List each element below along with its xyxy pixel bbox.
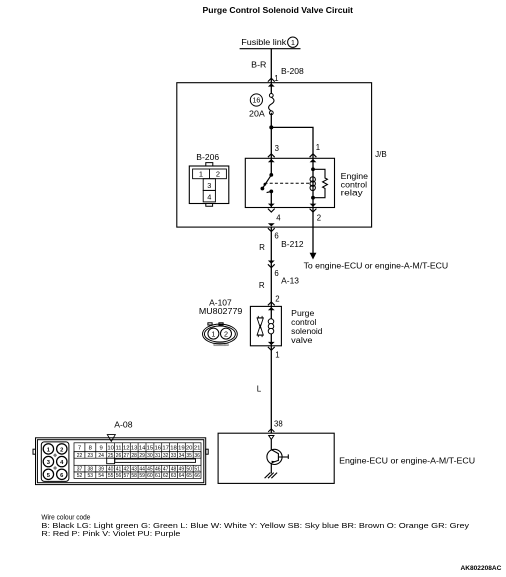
svg-text:65: 65 <box>186 473 192 479</box>
svg-text:2: 2 <box>60 447 63 453</box>
svg-text:15: 15 <box>147 445 154 451</box>
svg-text:18: 18 <box>170 445 177 451</box>
svg-text:20A: 20A <box>249 109 265 118</box>
svg-text:23: 23 <box>88 453 94 459</box>
svg-text:52: 52 <box>77 473 83 479</box>
svg-text:14: 14 <box>139 445 146 451</box>
A-08 pin row 22-36 <box>74 452 201 459</box>
relay switch arm <box>262 175 271 189</box>
svg-text:3: 3 <box>207 181 211 190</box>
A-08 pin row 37-51 <box>74 465 201 472</box>
svg-text:11: 11 <box>115 445 121 451</box>
relay pin 3 entry arrows <box>268 154 275 157</box>
svg-text:47: 47 <box>163 466 169 472</box>
relay pin 1 entry arrows <box>310 154 317 157</box>
svg-text:22: 22 <box>77 453 83 459</box>
svg-text:A-08: A-08 <box>114 421 133 430</box>
svg-text:2: 2 <box>216 170 220 179</box>
svg-text:Purge: Purge <box>291 309 315 318</box>
inline connector A-13 <box>268 261 275 264</box>
svg-text:valve: valve <box>291 336 313 345</box>
ECU pin 38 entry <box>268 429 274 432</box>
wire R from J/B to A-13 <box>270 227 272 306</box>
svg-text:6: 6 <box>274 231 278 240</box>
svg-text:66: 66 <box>194 473 200 479</box>
dashed actuation link <box>265 182 311 184</box>
wire branch to relay coil pin 1 <box>271 127 313 158</box>
svg-text:B-212: B-212 <box>281 240 304 249</box>
fuse element (wavy) <box>269 94 273 98</box>
svg-text:2: 2 <box>224 329 228 338</box>
A-08 index mark <box>107 435 115 442</box>
svg-text:55: 55 <box>108 473 114 479</box>
svg-text:R: Red P: Pink V: Violet PU: R: Red P: Pink V: Violet PU: Purple <box>41 530 180 538</box>
svg-text:20: 20 <box>186 445 193 451</box>
svg-text:AK802208AC: AK802208AC <box>461 565 502 572</box>
svg-text:1: 1 <box>199 170 203 179</box>
svg-text:58: 58 <box>131 473 137 479</box>
parallel resistor <box>313 169 327 197</box>
svg-text:49: 49 <box>179 466 185 472</box>
svg-text:40: 40 <box>108 466 114 472</box>
svg-text:4: 4 <box>276 214 281 223</box>
A-08 pin row 52-66 <box>74 472 201 479</box>
A-08 keyway <box>73 452 75 466</box>
svg-text:B-R: B-R <box>251 61 266 70</box>
svg-text:50: 50 <box>186 466 192 472</box>
engine-ECU box <box>218 433 334 483</box>
A-08 pin 2 <box>57 444 67 454</box>
svg-text:27: 27 <box>124 453 130 459</box>
wire to ground <box>270 463 272 474</box>
svg-text:relay: relay <box>341 188 363 197</box>
A-08 pin 5 <box>43 469 53 479</box>
wire relay switch to pin 4 <box>270 191 272 207</box>
svg-text:33: 33 <box>171 453 177 459</box>
svg-text:Fusible link: Fusible link <box>241 37 287 47</box>
svg-text:60: 60 <box>147 473 153 479</box>
svg-text:19: 19 <box>178 445 185 451</box>
svg-text:42: 42 <box>124 466 130 472</box>
wire relay pin 2 to engine-ECU <box>312 208 314 254</box>
svg-text:R: R <box>259 243 265 252</box>
svg-text:30: 30 <box>147 453 153 459</box>
A-08 pin 4 <box>57 456 67 466</box>
svg-text:57: 57 <box>124 473 130 479</box>
svg-text:44: 44 <box>139 466 145 472</box>
svg-text:To engine-ECU or engine-A-M/T-: To engine-ECU or engine-A-M/T-ECU <box>304 261 449 270</box>
svg-text:16: 16 <box>252 97 260 105</box>
svg-text:51: 51 <box>194 466 200 472</box>
A-08 pin row 7-21 <box>74 443 201 452</box>
svg-text:solenoid: solenoid <box>291 327 322 336</box>
svg-text:45: 45 <box>147 466 153 472</box>
svg-text:38: 38 <box>274 419 283 428</box>
svg-text:9: 9 <box>100 445 103 451</box>
valve symbol <box>257 316 264 337</box>
fusible link bus line <box>240 48 301 50</box>
svg-text:31: 31 <box>155 453 161 459</box>
svg-text:1: 1 <box>275 351 279 360</box>
wire B-R from fusible link to J/B <box>270 49 272 96</box>
svg-text:35: 35 <box>186 453 192 459</box>
svg-text:36: 36 <box>194 453 200 459</box>
svg-text:59: 59 <box>139 473 145 479</box>
svg-text:B-206: B-206 <box>196 153 219 162</box>
ground <box>265 473 278 479</box>
svg-text:46: 46 <box>155 466 161 472</box>
svg-text:64: 64 <box>179 473 185 479</box>
engine control relay box <box>245 158 334 207</box>
svg-text:62: 62 <box>163 473 169 479</box>
J/B exit arrows B-212 pin 6 <box>268 223 275 226</box>
svg-text:1: 1 <box>274 74 278 83</box>
svg-text:1: 1 <box>291 40 295 47</box>
arrowhead to engine-ECU <box>310 253 317 260</box>
svg-text:control: control <box>291 318 316 327</box>
svg-text:A-13: A-13 <box>281 277 299 286</box>
svg-text:61: 61 <box>155 473 161 479</box>
svg-text:L: L <box>257 385 262 394</box>
relay coil branch wire <box>312 158 314 207</box>
A-08 pin 1 <box>43 444 53 454</box>
svg-text:48: 48 <box>171 466 177 472</box>
coil bottom node <box>311 196 315 200</box>
svg-text:12: 12 <box>123 445 130 451</box>
svg-text:7: 7 <box>78 445 81 451</box>
A-08 pin 3 <box>43 456 53 466</box>
svg-text:MU802779: MU802779 <box>199 307 243 316</box>
wire through valve <box>270 306 272 345</box>
svg-text:56: 56 <box>116 473 122 479</box>
svg-text:21: 21 <box>194 445 201 451</box>
svg-text:29: 29 <box>139 453 145 459</box>
connector B-206 face <box>189 163 229 207</box>
svg-text:3: 3 <box>275 144 279 153</box>
wire into transistor <box>270 440 272 451</box>
svg-text:28: 28 <box>131 453 137 459</box>
svg-text:J/B: J/B <box>375 150 387 159</box>
connector A-107 face <box>214 343 226 346</box>
purge control solenoid valve box <box>250 306 281 345</box>
svg-text:63: 63 <box>171 473 177 479</box>
svg-text:B-208: B-208 <box>281 67 304 76</box>
A-08 pin 6 <box>57 469 67 479</box>
svg-text:32: 32 <box>163 453 169 459</box>
svg-text:37: 37 <box>77 466 83 472</box>
svg-text:6: 6 <box>274 269 278 278</box>
svg-text:Purge Control Solenoid Valve C: Purge Control Solenoid Valve Circuit <box>203 5 354 15</box>
output transistor <box>267 449 282 464</box>
svg-text:16: 16 <box>155 445 162 451</box>
connector arrows into J/B at B-208 pin 1 <box>268 78 275 81</box>
svg-text:38: 38 <box>88 466 94 472</box>
relay switch contact top <box>269 173 273 177</box>
svg-text:2: 2 <box>317 214 321 223</box>
wire from fuse to relay pin 3 <box>270 113 272 175</box>
coil top node <box>311 167 315 171</box>
svg-text:24: 24 <box>98 453 104 459</box>
relay pin 4 exit arrows <box>268 204 275 207</box>
svg-text:39: 39 <box>98 466 104 472</box>
svg-text:43: 43 <box>131 466 137 472</box>
svg-text:4: 4 <box>207 192 211 201</box>
svg-text:1: 1 <box>316 143 320 152</box>
svg-text:41: 41 <box>116 466 122 472</box>
relay switch contact bottom <box>269 190 273 194</box>
fuse number 16 <box>250 94 262 106</box>
svg-text:13: 13 <box>131 445 138 451</box>
relay pin 2 exit arrows <box>310 204 317 207</box>
svg-text:54: 54 <box>98 473 104 479</box>
svg-text:Engine-ECU or engine-A-M/T-ECU: Engine-ECU or engine-A-M/T-ECU <box>339 456 475 465</box>
svg-text:17: 17 <box>162 445 169 451</box>
junction node <box>269 125 273 129</box>
svg-text:53: 53 <box>88 473 94 479</box>
svg-text:B: Black LG: Light green G:: B: Black LG: Light green G: Green L: Blu… <box>41 522 469 530</box>
relay coil windings <box>310 177 315 182</box>
svg-text:10: 10 <box>107 445 114 451</box>
svg-text:26: 26 <box>116 453 122 459</box>
valve exit arrows <box>268 342 275 345</box>
svg-text:2: 2 <box>275 295 279 304</box>
svg-text:34: 34 <box>179 453 185 459</box>
valve entry arrows <box>268 302 275 305</box>
solenoid coil windings <box>268 319 274 325</box>
wire L from valve to ECU pin 38 <box>270 346 272 433</box>
junction block J/B <box>177 83 372 227</box>
svg-text:1: 1 <box>211 329 215 338</box>
svg-text:R: R <box>259 281 265 290</box>
connector A-08 face <box>33 438 208 485</box>
svg-text:Wire colour code: Wire colour code <box>41 513 90 521</box>
